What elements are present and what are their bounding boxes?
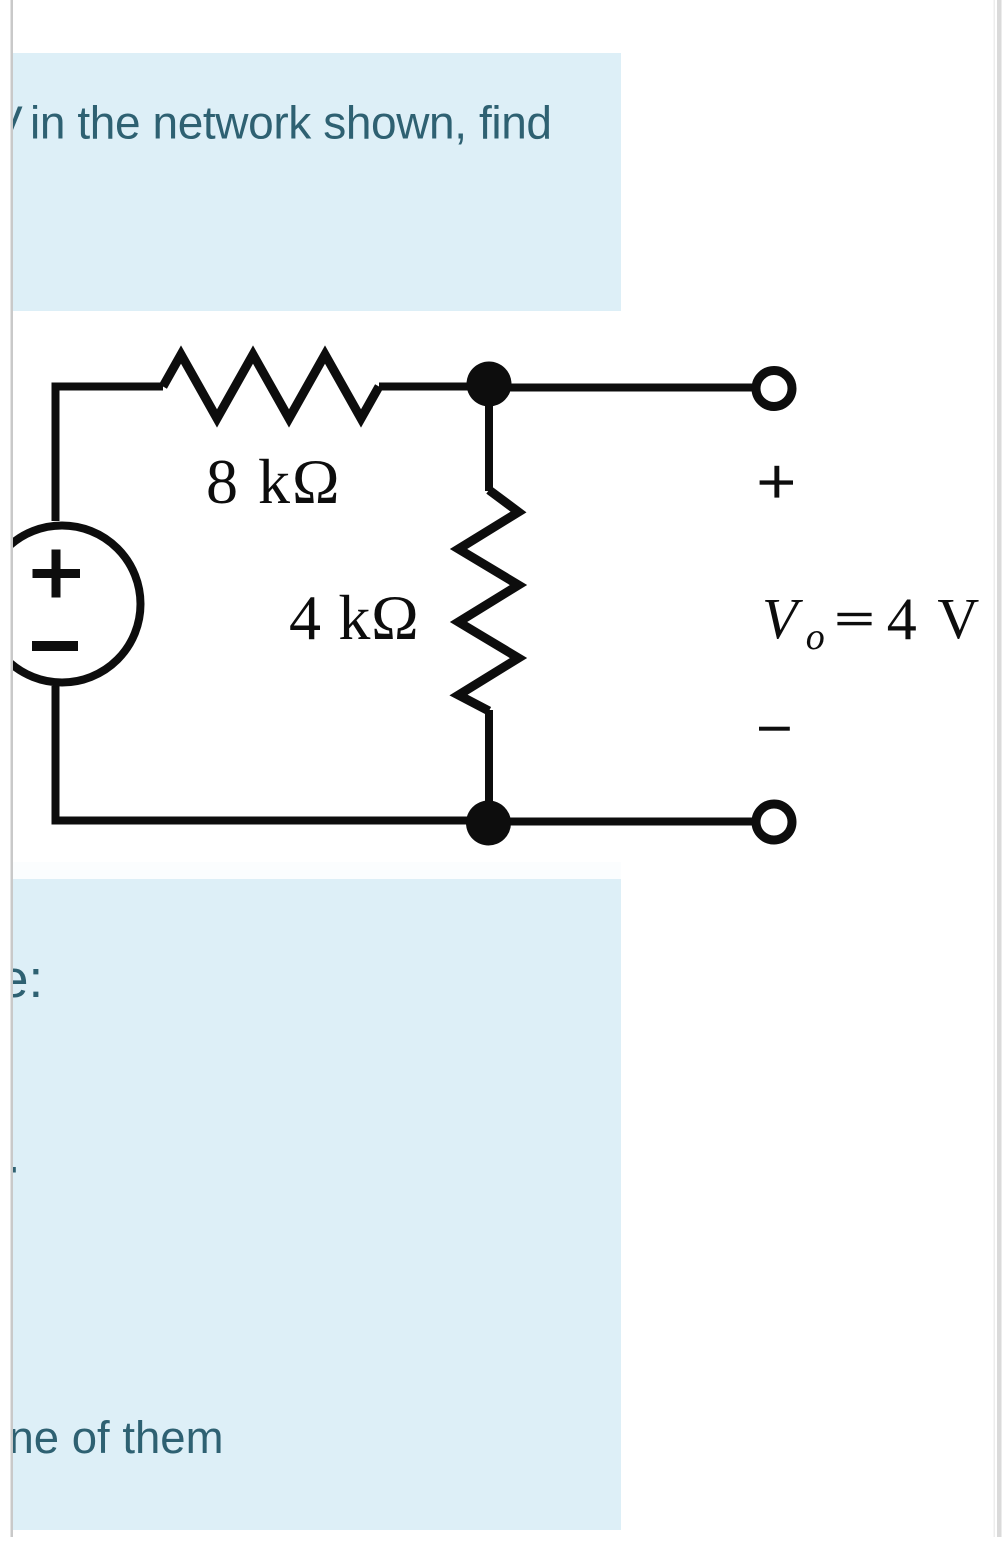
voltage source minus polarity mark (32, 641, 78, 651)
wire: node B to - output terminal (489, 818, 753, 826)
answer highlight box (13, 879, 621, 1530)
svg-text:in the network shown, find: in the network shown, find (30, 97, 552, 149)
wire: node A to + output terminal (489, 384, 753, 392)
output polarity minus sign (759, 727, 790, 731)
resistor R2 4 kOhm zigzag (459, 490, 519, 711)
svg-text:V: V (937, 586, 979, 651)
resistor R1 8 kOhm zigzag (163, 355, 379, 419)
node A junction dot (467, 362, 512, 407)
svg-text:8 kΩ: 8 kΩ (206, 446, 342, 517)
right scrollbar track line (faint) (994, 0, 996, 1537)
svg-text:o: o (806, 616, 825, 658)
output polarity plus sign (760, 466, 793, 498)
voltage source V1 circle (0, 526, 141, 683)
wire: top from resistor to node A (379, 383, 489, 391)
clipped text fragment (13, 1167, 16, 1173)
wire: node A down to resistor R2 (485, 386, 493, 491)
wire: left vertical bottom segment with bottom-left corner (56, 686, 490, 821)
question highlight box (13, 53, 621, 311)
svg-text:ne of them: ne of them (9, 1412, 224, 1463)
output terminal - (open circle) (756, 804, 792, 840)
left border line (11, 0, 14, 1537)
output terminal + (open circle) (756, 371, 792, 407)
equals sign of Vo label (837, 613, 871, 626)
circuit schematic (0, 355, 753, 825)
right scrollbar line (997, 0, 1002, 1537)
wire: left vertical top segment with top-left corner (56, 387, 164, 522)
answer highlight box light strip (13, 862, 621, 879)
svg-text:4: 4 (887, 586, 917, 652)
voltage source plus polarity mark (33, 550, 81, 598)
svg-text:4 kΩ: 4 kΩ (289, 582, 419, 653)
wire: resistor R2 to node B (485, 710, 493, 824)
node B junction dot (466, 801, 511, 846)
